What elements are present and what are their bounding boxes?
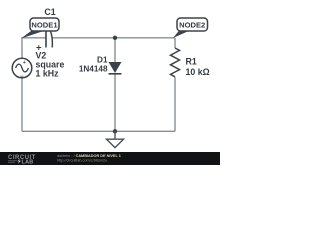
- node flag NODE1: [21, 18, 59, 39]
- voltage source V2: [12, 58, 32, 80]
- svg-text:D1: D1: [97, 56, 108, 65]
- wire V2 bottom branch: [21, 78, 23, 131]
- svg-text:NODE1: NODE1: [31, 21, 58, 30]
- svg-text:+: +: [23, 60, 26, 66]
- footer CircuitLab logo: [8, 155, 36, 166]
- svg-text:R1: R1: [186, 57, 197, 67]
- wire R1 top branch: [174, 38, 176, 48]
- junction at ground node: [113, 129, 117, 133]
- svg-text:C1: C1: [44, 7, 55, 17]
- label C1: [44, 7, 55, 17]
- wire diode top branch: [114, 38, 116, 63]
- svg-text:1 kHz: 1 kHz: [36, 69, 60, 79]
- wire R1 bottom branch to corner: [174, 77, 176, 131]
- svg-text:http://circuitlab.com/c/96sm2u: http://circuitlab.com/c/96sm2u: [57, 159, 107, 163]
- label D1 1N4148: [79, 56, 108, 74]
- svg-text:NODE2: NODE2: [179, 21, 205, 30]
- svg-text:1N4148: 1N4148: [79, 65, 108, 74]
- label R1 10 kOhm: [186, 57, 210, 78]
- label V2 name and value: square 1 kHz: [36, 51, 65, 79]
- wire bottom rail: [22, 130, 175, 132]
- wire diode bottom branch: [114, 74, 116, 131]
- capacitor C1 plates: [46, 31, 52, 48]
- svg-text:danielm : / CAMBIADOR DE NIVEL: danielm : / CAMBIADOR DE NIVEL 1: [57, 154, 121, 158]
- footer bar: [0, 152, 220, 165]
- junction at diode top node: [113, 36, 117, 40]
- svg-text:−: −: [20, 74, 24, 80]
- wire top-right from capacitor to NODE2 corner: [52, 37, 175, 39]
- node flag NODE2: [173, 18, 208, 38]
- svg-text:LAB: LAB: [22, 160, 34, 165]
- diode D1: [109, 62, 122, 74]
- ground: [107, 131, 124, 147]
- footer text lines: [57, 154, 121, 163]
- resistor R1: [171, 48, 180, 77]
- label V2 polarity +: [36, 43, 42, 54]
- svg-text:10 kΩ: 10 kΩ: [186, 67, 210, 77]
- wire top-left from V2 top to capacitor: [22, 38, 46, 58]
